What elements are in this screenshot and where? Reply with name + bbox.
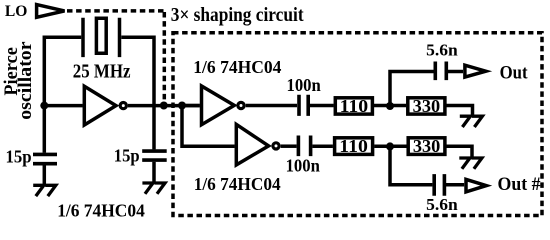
svg-text:5.6n: 5.6n [426,41,458,60]
svg-text:oscillator: oscillator [15,41,36,120]
svg-text:5.6n: 5.6n [426,195,458,214]
svg-text:1/6 74HC04: 1/6 74HC04 [194,174,281,194]
svg-text:Out: Out [500,64,529,84]
svg-text:110: 110 [340,96,369,116]
svg-text:LO: LO [5,3,28,20]
svg-text:15p: 15p [114,145,140,165]
svg-text:100n: 100n [287,75,322,95]
svg-text:110: 110 [339,136,368,156]
svg-text:1/6 74HC04: 1/6 74HC04 [57,201,145,221]
svg-text:100n: 100n [286,155,321,175]
svg-text:15p: 15p [6,147,32,167]
svg-text:330: 330 [413,96,441,116]
svg-text:25 MHz: 25 MHz [73,60,131,82]
svg-text:Out #: Out # [498,175,541,195]
svg-text:330: 330 [413,136,441,156]
svg-text:3× shaping circuit: 3× shaping circuit [171,4,304,26]
svg-text:1/6 74HC04: 1/6 74HC04 [193,57,281,77]
